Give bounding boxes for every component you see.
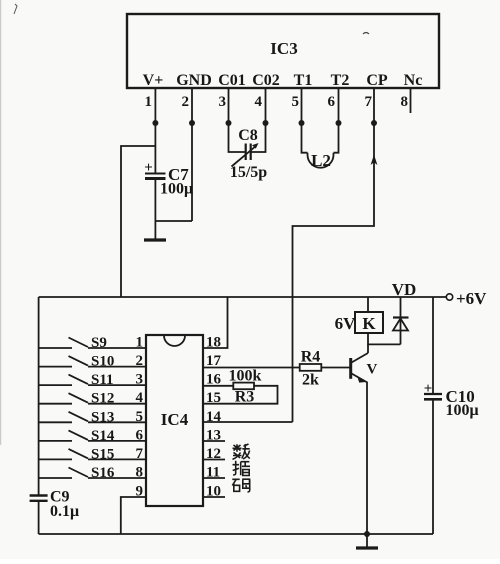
svg-text:S14: S14 [91, 428, 115, 444]
capacitor C8 (trimmer) [230, 127, 267, 181]
svg-text:4: 4 [255, 94, 263, 110]
wire bottom ground rail [39, 533, 433, 535]
svg-text:S13: S13 [91, 409, 114, 425]
svg-text:100μ: 100μ [160, 181, 193, 198]
relay K [335, 312, 383, 333]
wire pin6 down [334, 88, 339, 153]
svg-text:R4: R4 [301, 349, 321, 366]
scan speck above IC3 [363, 33, 369, 35]
svg-text:V: V [367, 362, 378, 378]
wire pin7 CP down and across to pin14 riser [293, 88, 375, 422]
wire C10 down to rail [432, 399, 434, 534]
diode VD [393, 297, 409, 344]
wire pin16 to R3 [203, 385, 233, 387]
svg-text:5: 5 [136, 409, 144, 425]
node dot pin7 [371, 120, 377, 126]
relay K riser [367, 297, 369, 312]
svg-text:C01: C01 [218, 72, 246, 89]
signal arrow into CP [371, 155, 378, 166]
svg-text:8: 8 [401, 94, 409, 110]
svg-text:8: 8 [136, 465, 144, 481]
wire pin1 V+ down [154, 88, 156, 173]
label ma (data) char3 [232, 479, 250, 492]
svg-text:IC3: IC3 [270, 39, 297, 58]
svg-text:+6V: +6V [456, 289, 487, 308]
wire emitter down to ground rail [366, 382, 368, 535]
svg-text:1: 1 [136, 335, 144, 351]
label shu (data) char1 [233, 444, 250, 459]
svg-text:T1: T1 [294, 72, 313, 89]
svg-text:7: 7 [365, 94, 373, 110]
inductor L2 [308, 151, 334, 170]
switch S14 [39, 428, 146, 444]
wire V+ junction to left riser [121, 146, 155, 297]
svg-text:CP: CP [366, 72, 388, 89]
wire pin17 to R4 [203, 367, 300, 369]
svg-text:S9: S9 [91, 335, 107, 351]
switch S9 [39, 335, 146, 351]
svg-text:4: 4 [136, 390, 144, 406]
node dot pin2 [189, 120, 195, 126]
svg-text:C02: C02 [252, 72, 280, 89]
svg-text:Nc: Nc [404, 72, 423, 89]
svg-text:GND: GND [176, 72, 212, 89]
switch S12 [39, 391, 146, 407]
resistor R3 100k [229, 368, 262, 406]
capacitor C7 (electrolytic 100u) [144, 160, 193, 198]
svg-text:IC4: IC4 [161, 410, 189, 429]
svg-text:7: 7 [136, 446, 144, 462]
svg-text:100k: 100k [229, 368, 262, 385]
wire pin4 down [251, 88, 266, 152]
svg-text:L2: L2 [311, 151, 331, 170]
svg-text:V+: V+ [143, 72, 164, 89]
wire pin14 to CP riser [203, 421, 293, 423]
svg-text:K: K [362, 314, 376, 333]
svg-text:S16: S16 [91, 465, 115, 481]
svg-text:0.1μ: 0.1μ [50, 503, 79, 520]
scan speck top-left [14, 4, 17, 14]
wire pin11 stub [203, 477, 225, 479]
svg-text:100μ: 100μ [446, 402, 479, 419]
svg-text:S10: S10 [91, 354, 114, 370]
ground (under C7) [144, 238, 166, 241]
node dot ground junction [364, 531, 370, 537]
switch S15 [39, 446, 146, 462]
wire pin18 up to rail [203, 297, 228, 348]
svg-text:S11: S11 [91, 372, 114, 388]
svg-text:2: 2 [182, 94, 190, 110]
svg-text:VD: VD [392, 280, 417, 299]
switch S10 [39, 354, 146, 370]
wire R3 right down to pin15 [203, 386, 278, 404]
wire pin9 to ground rail [121, 497, 146, 534]
wire pin13 stub [203, 440, 225, 442]
label ju (data) char2 [233, 461, 251, 476]
capacitor C10 (electrolytic 100u) [424, 381, 479, 419]
node dot pin6 [336, 120, 342, 126]
node dot pin5 [299, 120, 305, 126]
capacitor C9 0.1u [30, 489, 79, 521]
svg-text:5: 5 [292, 94, 300, 110]
wire left rail lower [38, 501, 40, 534]
switch S16 [39, 465, 146, 481]
op-amp U1: IC3 box [127, 14, 439, 88]
wire C7 bottom to GND join [155, 179, 192, 222]
node dot pin3 [226, 120, 232, 126]
svg-text:S15: S15 [91, 446, 114, 462]
svg-text:6: 6 [136, 427, 144, 443]
wire pin12 stub [203, 459, 225, 461]
svg-text:2k: 2k [302, 372, 319, 389]
switch S11 [39, 372, 146, 388]
switch S13 [39, 409, 146, 425]
wire pin5 down [302, 88, 308, 153]
ground (main) [356, 534, 378, 548]
svg-text:6V: 6V [335, 314, 357, 333]
capacitor C10 riser [432, 297, 434, 394]
wire pin2 GND down [191, 88, 193, 221]
wire stub to ground under C7 [154, 221, 156, 239]
IC U: IC4 box [146, 335, 203, 506]
resistor R4 2k [300, 349, 322, 389]
wire relay bottom [368, 333, 401, 344]
terminal +6V [446, 294, 452, 300]
svg-text:T2: T2 [331, 72, 350, 89]
wire pin3 down [229, 88, 246, 152]
svg-text:1: 1 [145, 94, 153, 110]
wire left rail upper (to C9) [38, 297, 40, 495]
svg-text:3: 3 [136, 372, 144, 388]
wire pin10 stub [203, 496, 225, 498]
svg-text:3: 3 [219, 94, 227, 110]
svg-text:C8: C8 [238, 127, 258, 144]
svg-text:6: 6 [328, 94, 336, 110]
wire pin8 Nc stub [410, 88, 412, 113]
svg-text:15/5p: 15/5p [230, 164, 267, 181]
node dot pin4 [263, 120, 269, 126]
transistor V (NPN) [351, 344, 378, 382]
wire +6V rail [39, 296, 446, 298]
svg-text:2: 2 [136, 353, 144, 369]
node dot pin1 [152, 120, 158, 126]
wire R4 to base [321, 367, 350, 369]
svg-text:S12: S12 [91, 391, 114, 407]
